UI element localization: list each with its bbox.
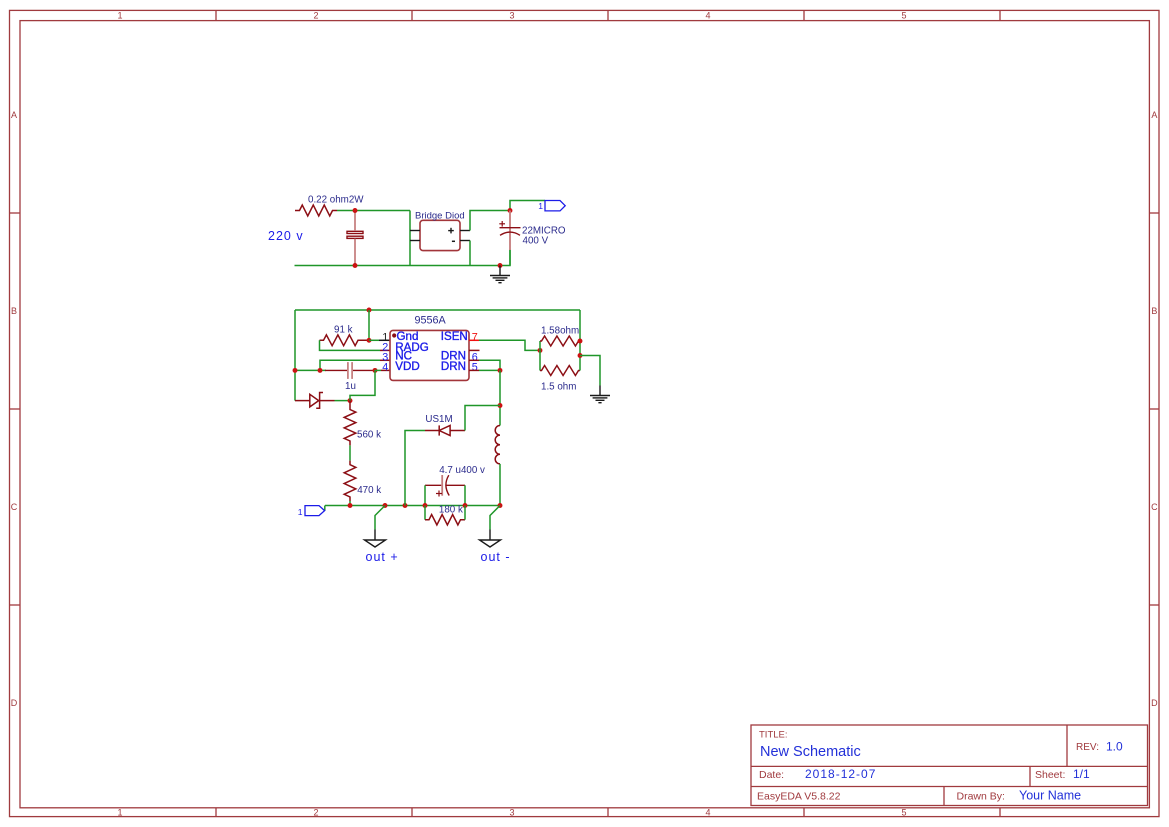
IC U1 9556A body [390,330,469,380]
capacitor C 1u plates [348,362,352,379]
IC pin1 marker dot [392,333,396,337]
svg-text:1.0: 1.0 [1106,740,1123,754]
wire bridge plus up [470,211,510,231]
svg-text:out -: out - [481,550,511,564]
svg-text:4.7 u400 v: 4.7 u400 v [439,465,485,476]
node junction cap left [423,503,428,508]
capacitor C 22MICRO lead [509,211,511,251]
row letters left [11,110,18,708]
svg-text:New Schematic: New Schematic [760,744,861,760]
svg-text:A: A [1151,110,1157,120]
node junction pin5 [498,368,503,373]
svg-text:C: C [1151,502,1158,512]
resistor R 1.58ohm [540,336,580,346]
svg-text:3: 3 [509,808,514,818]
svg-text:1.58ohm: 1.58ohm [541,326,579,337]
pin 5 stub [469,369,479,371]
wire between dividers [349,445,351,460]
row tick marks left [10,213,21,605]
node junction bottom input [353,263,358,268]
wire bottom output rail [325,505,500,507]
wire inductor bottom [499,464,501,506]
ground signal out plus [365,530,386,548]
svg-text:VDD: VDD [395,360,419,373]
wire sense left up [539,341,541,350]
inductor L1 [495,426,500,464]
IC pin names right [441,330,468,373]
wire zener to divider [335,400,351,402]
wire bridge minus down [469,241,471,266]
svg-text:B: B [1151,306,1157,316]
svg-text:5: 5 [472,361,478,373]
svg-text:220 v: 220 v [268,229,304,243]
wire pin4 green [375,369,381,371]
wire cap left drop [424,485,426,505]
resistor R 0.22ohm2W [295,205,337,216]
wire vdd top rail [295,309,580,311]
wire pin1 green [369,339,379,341]
svg-text:D: D [11,698,18,708]
svg-text:5: 5 [901,11,906,21]
capacitor input filter leads [354,211,356,265]
svg-text:2018-12-07: 2018-12-07 [805,767,876,781]
node junction top input [353,208,358,213]
svg-text:out +: out + [366,550,399,564]
svg-text:C: C [11,502,18,512]
wire us1m vertical [405,431,425,506]
svg-text:EasyEDA V5.8.22: EasyEDA V5.8.22 [757,791,841,803]
wire feedback riser [350,370,375,400]
wire drain vertical [499,370,501,425]
svg-text:4: 4 [705,11,710,21]
node junction vdd cap right [373,368,378,373]
svg-text:Drawn By:: Drawn By: [957,791,1005,803]
wire top input to bridge [337,210,410,212]
node junction divider bottom [348,503,353,508]
node junction out plus [383,503,388,508]
svg-text:REV:: REV: [1076,742,1099,753]
wire vdd line left [295,369,326,371]
svg-text:470 k: 470 k [357,485,381,496]
wire sense left down [539,350,541,370]
capacitor C 22MICRO plus mark [499,221,505,227]
pin 8 stub [469,349,480,351]
svg-text:US1M: US1M [425,414,452,425]
svg-text:4: 4 [382,361,388,373]
ground signal out minus [480,530,501,548]
svg-text:1/1: 1/1 [1073,767,1090,781]
wire out plus drop [375,506,385,530]
pin 1 stub black [379,339,390,341]
svg-text:2: 2 [313,11,318,21]
svg-text:Bridge Diod: Bridge Diod [415,211,465,222]
node junction sense right mid [578,353,583,358]
svg-text:Sheet:: Sheet: [1035,769,1065,781]
svg-text:Your Name: Your Name [1019,789,1081,803]
svg-text:560 k: 560 k [357,430,381,441]
svg-text:1.5 ohm: 1.5 ohm [541,382,576,393]
svg-text:1: 1 [298,507,303,517]
wire pin7 to sense resistors [479,340,540,350]
title block outline [751,725,1148,806]
pin 6 stub [469,359,479,361]
svg-text:91 k: 91 k [334,325,353,336]
svg-text:7: 7 [472,331,478,343]
svg-text:3: 3 [509,11,514,21]
wire sense to ground [580,356,600,386]
node junction top rail pin1 branch [367,308,372,313]
capacitor C 22MICRO plates [500,228,521,236]
ground earth top [490,266,510,283]
wire 91k to pin2 [320,340,381,350]
wire bottom rail [295,250,511,266]
svg-text:A: A [11,110,17,120]
svg-text:DRN: DRN [441,360,466,373]
node junction us1m branch [403,503,408,508]
port flag 1 bottom [305,506,325,516]
svg-text:D: D [1151,698,1158,708]
svg-text:ISEN: ISEN [441,330,468,343]
bridge plus mark [448,228,454,234]
IC pin names left [395,330,429,373]
resistor R 91k [320,335,370,346]
svg-text:400 V: 400 V [523,235,549,246]
wire out minus drop [490,506,500,530]
wire pin3 [320,360,380,370]
svg-text:4: 4 [705,808,710,818]
pin 2 stub [380,349,390,351]
port flag 1 top [545,201,565,211]
resistor R 180k [425,515,465,525]
IC pin numbers left [382,331,388,373]
wire 180k left drop [424,506,426,520]
wire cap right drop [464,485,466,505]
svg-text:1: 1 [538,201,543,211]
svg-text:1: 1 [117,808,122,818]
capacitor C 4.7u leads [425,484,465,486]
bridge pins [410,231,470,241]
pin 4 stub [381,369,390,371]
node junction pin1 [367,338,372,343]
resistor R 1.5ohm [540,366,580,376]
wire to port 1 top [510,201,545,211]
svg-text:9556A: 9556A [415,315,447,327]
wire pin1 branch vertical [368,310,370,340]
wire divider to bottom rail [349,501,351,506]
column numbers top [117,11,906,21]
wire port jog [324,506,326,511]
diode US1M [425,425,465,435]
pin 7 stub red [469,339,479,341]
resistor R 470k [344,461,356,501]
bridge rectifier body [420,220,460,250]
column tick marks top [216,10,1000,20]
capacitor C 4.7u plus mark [436,491,442,497]
wire us1m to drain [465,406,500,431]
resistor R 560k [344,401,356,446]
wire left vertical rail [294,310,296,401]
row tick marks right [1149,213,1159,605]
svg-text:1u: 1u [345,381,356,392]
node junction drain branch [498,403,503,408]
wire pin6 [479,360,500,370]
capacitor C 4.7u plates [441,475,443,496]
svg-text:Date:: Date: [759,769,784,781]
svg-text:B: B [11,306,17,316]
svg-text:0.22 ohm2W: 0.22 ohm2W [308,195,364,206]
wire 180k right drop [464,506,466,520]
node junction sense left [538,348,543,353]
capacitor C 1u leads [325,369,376,371]
row letters right [1151,110,1158,708]
node junction cap right [463,503,468,508]
wire pin5 [479,369,500,371]
wire cap to bottom rail [509,250,511,266]
node junction sense right top [578,339,583,344]
capacitor input filter plates [347,231,363,238]
bridge minus mark [452,240,455,242]
node junction bridge out [508,208,513,213]
node junction out minus [498,503,503,508]
svg-text:1: 1 [117,11,122,21]
diode zener [295,393,335,409]
node junction ground top [498,263,503,268]
wire sense right vertical [579,310,581,371]
node junction vdd left [293,368,298,373]
svg-text:TITLE:: TITLE: [759,730,788,741]
ground earth right [590,386,610,403]
svg-text:180 k: 180 k [439,505,463,516]
IC pin numbers right [472,331,478,373]
column numbers bottom [117,808,906,818]
svg-text:2: 2 [313,808,318,818]
svg-text:5: 5 [901,808,906,818]
node junction divider top [348,398,353,403]
column tick marks bottom [216,808,1000,817]
pin 3 stub [380,359,390,361]
wire bridge left vertical [409,211,411,266]
node junction vdd cap left [318,368,323,373]
